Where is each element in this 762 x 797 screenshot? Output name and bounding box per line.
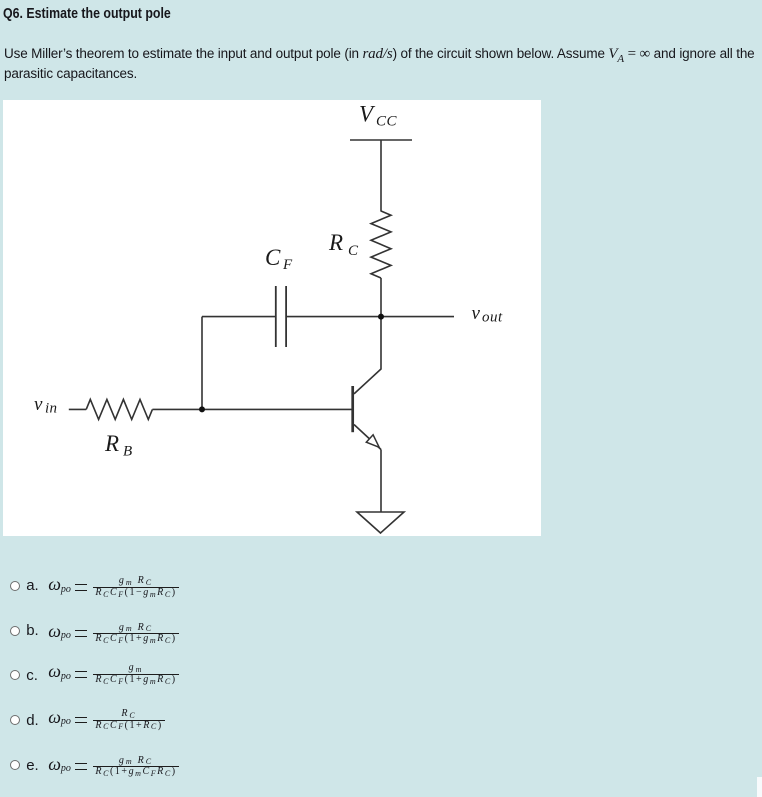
svg-text:v: v [34, 394, 43, 415]
svg-text:v: v [472, 303, 481, 324]
svg-text:C: C [265, 245, 281, 270]
svg-text:out: out [482, 310, 503, 326]
svg-text:C: C [348, 243, 359, 259]
svg-text:V: V [359, 102, 376, 127]
svg-text:R: R [328, 230, 343, 255]
svg-text:B: B [123, 444, 132, 460]
svg-text:R: R [104, 431, 119, 456]
svg-text:in: in [45, 401, 57, 417]
svg-text:F: F [282, 257, 293, 273]
svg-text:CC: CC [376, 114, 398, 130]
